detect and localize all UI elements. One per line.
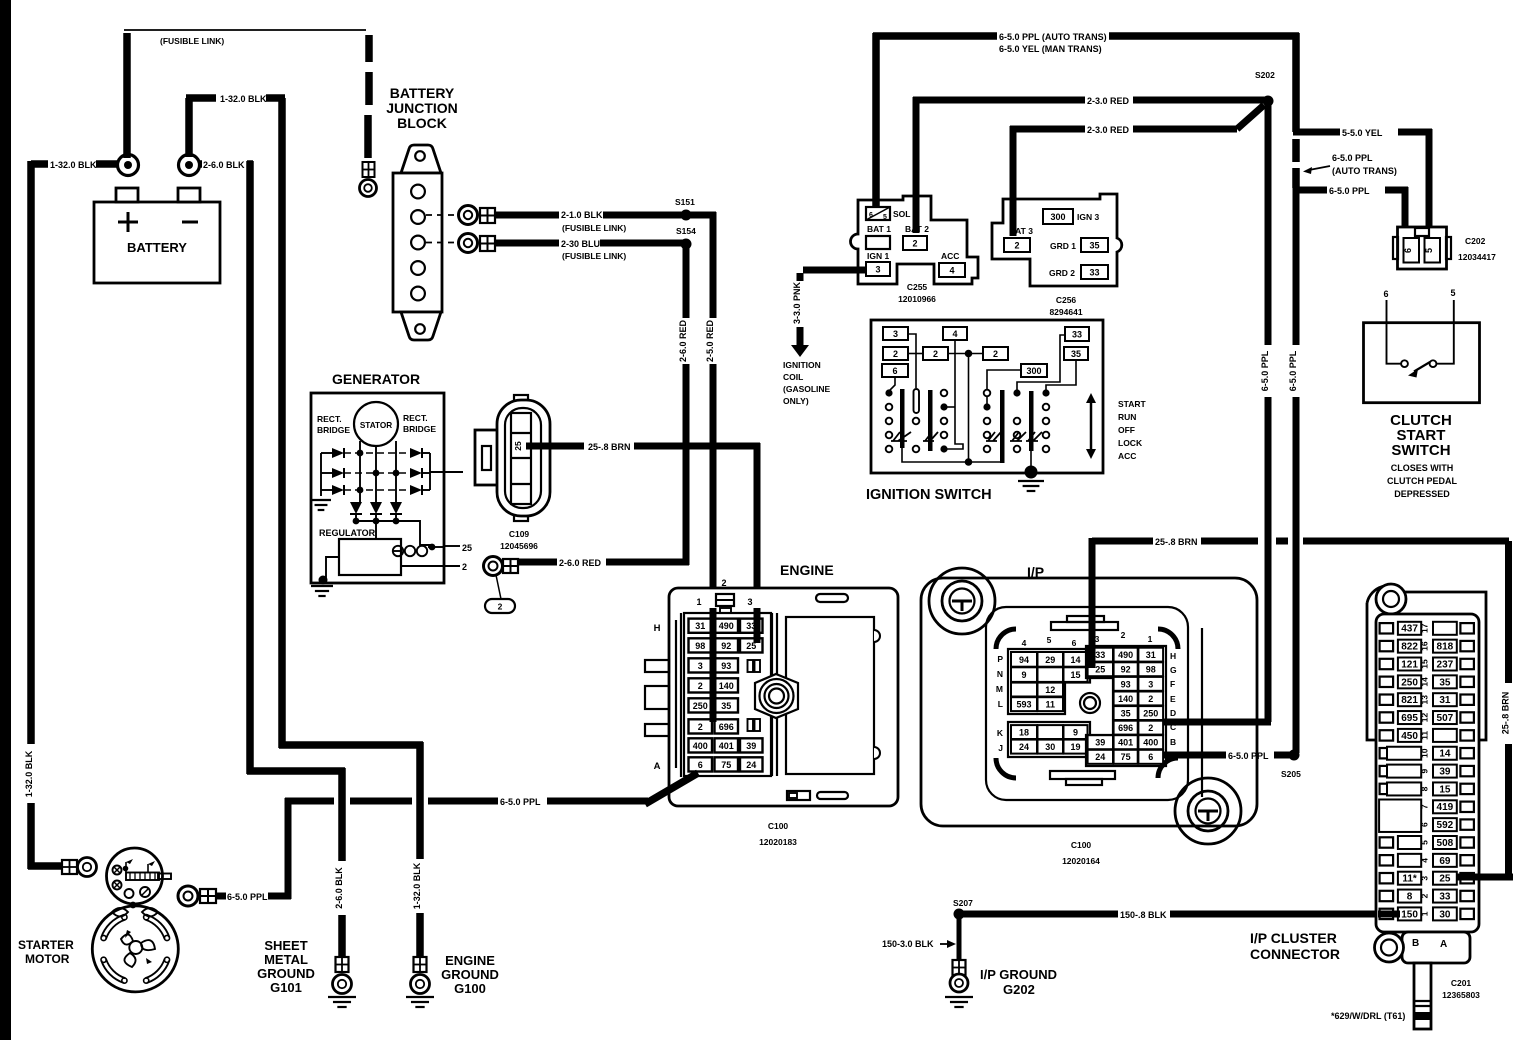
splice S205 (1281, 750, 1301, 780)
ignition switch ground (1018, 451, 1044, 491)
svg-text:1-32.0 BLK: 1-32.0 BLK (24, 750, 34, 797)
svg-text:24: 24 (1095, 752, 1105, 762)
svg-text:B: B (1170, 737, 1176, 747)
wire 1-32.0 BLK battery negative to engine ground G100 (186, 94, 423, 958)
svg-text:CLUTCH PEDAL: CLUTCH PEDAL (1387, 476, 1457, 486)
svg-text:14: 14 (1419, 677, 1429, 687)
svg-text:ACC: ACC (1118, 451, 1136, 461)
svg-text:C201: C201 (1451, 978, 1472, 988)
svg-text:1: 1 (696, 597, 701, 607)
generator output 25 (444, 543, 472, 553)
svg-text:10: 10 (1419, 748, 1429, 758)
svg-text:92: 92 (1121, 665, 1131, 675)
svg-text:250: 250 (1143, 708, 1158, 718)
svg-text:1-32.0 BLK: 1-32.0 BLK (412, 862, 422, 909)
svg-text:33: 33 (1072, 329, 1082, 339)
wire 6-5.0 PPL S205 to I/P pin 6 (1164, 751, 1291, 761)
svg-text:35: 35 (1071, 349, 1081, 359)
svg-text:12045696: 12045696 (500, 541, 538, 551)
svg-text:25: 25 (462, 543, 472, 553)
ground symbol G101 (328, 996, 356, 998)
svg-text:6: 6 (1072, 638, 1077, 648)
svg-text:GENERATOR: GENERATOR (332, 371, 420, 387)
svg-text:822: 822 (1401, 642, 1418, 653)
svg-text:2-1.0 BLK: 2-1.0 BLK (561, 210, 603, 220)
svg-text:419: 419 (1437, 802, 1454, 813)
svg-text:BLOCK: BLOCK (397, 115, 447, 131)
svg-text:25: 25 (1095, 665, 1105, 675)
svg-text:3: 3 (1148, 679, 1153, 689)
svg-text:1: 1 (1419, 911, 1429, 916)
svg-text:E: E (1170, 694, 1176, 704)
svg-text:2: 2 (498, 602, 503, 612)
svg-text:IGN 3: IGN 3 (1077, 212, 1099, 222)
generator stator (354, 402, 398, 446)
splice S202 (1255, 70, 1275, 107)
svg-text:5-5.0 YEL: 5-5.0 YEL (1342, 128, 1383, 138)
svg-text:6: 6 (1148, 752, 1153, 762)
svg-text:D: D (1170, 708, 1176, 718)
svg-text:14: 14 (1439, 749, 1451, 760)
svg-text:6-5.0 PPL: 6-5.0 PPL (227, 892, 268, 902)
ring terminal I/P ground G202 (950, 960, 968, 992)
svg-text:C255: C255 (907, 282, 928, 292)
svg-text:COIL: COIL (783, 372, 803, 382)
wire 25-.8 BRN into C201 pin 25 (overlay) (1457, 874, 1513, 881)
label engine ground G100 (441, 953, 499, 996)
svg-text:12020164: 12020164 (1062, 856, 1100, 866)
svg-text:150-3.0 BLK: 150-3.0 BLK (882, 939, 934, 949)
generator regulator (319, 528, 401, 575)
svg-text:19: 19 (1070, 742, 1080, 752)
svg-text:6: 6 (869, 212, 873, 219)
svg-text:RUN: RUN (1118, 412, 1136, 422)
svg-text:GRD 1: GRD 1 (1050, 241, 1076, 251)
svg-text:5: 5 (1047, 635, 1052, 645)
svg-text:J: J (998, 743, 1003, 753)
svg-text:490: 490 (1118, 650, 1133, 660)
svg-text:RECT.: RECT. (403, 413, 428, 423)
svg-text:593: 593 (1016, 700, 1031, 710)
wire: battery - to sheet metal ground G101 (2-6.0 BLK) (200, 160, 345, 958)
svg-text:2: 2 (462, 562, 467, 572)
ring terminal junction block feed 1 (459, 206, 496, 225)
svg-text:N: N (997, 669, 1003, 679)
svg-text:4: 4 (949, 265, 954, 275)
generator regulator ground (311, 557, 339, 596)
svg-text:33: 33 (1439, 891, 1451, 902)
svg-text:821: 821 (1401, 695, 1418, 706)
svg-text:2: 2 (698, 681, 703, 691)
wire 6-5.0 PPL S202 to I/P pin C2 (1164, 104, 1271, 722)
svg-text:9: 9 (1021, 670, 1026, 680)
label starter motor (18, 938, 74, 966)
C201 bottom area (1331, 932, 1480, 1029)
C201 pin grid (1379, 622, 1474, 921)
svg-text:S207: S207 (953, 898, 973, 908)
ring terminal fusible link at junction block (360, 162, 377, 197)
svg-text:2-6.0 BLK: 2-6.0 BLK (334, 867, 344, 909)
svg-text:SOL: SOL (893, 209, 910, 219)
svg-text:5: 5 (1424, 248, 1434, 253)
svg-text:G101: G101 (270, 980, 302, 995)
svg-text:2-5.0 RED: 2-5.0 RED (705, 319, 715, 362)
svg-text:490: 490 (719, 621, 734, 631)
svg-text:2: 2 (993, 349, 998, 359)
svg-text:C100: C100 (1071, 840, 1092, 850)
svg-text:C100: C100 (768, 821, 789, 831)
svg-text:237: 237 (1437, 659, 1454, 670)
svg-text:29: 29 (1045, 655, 1055, 665)
svg-text:92: 92 (721, 641, 731, 651)
svg-text:6: 6 (698, 760, 703, 770)
svg-text:(FUSIBLE LINK): (FUSIBLE LINK) (562, 251, 626, 261)
svg-text:2: 2 (1014, 240, 1019, 250)
svg-text:24: 24 (1019, 742, 1029, 752)
svg-text:2-3.0 RED: 2-3.0 RED (1087, 96, 1130, 106)
svg-text:(FUSIBLE LINK): (FUSIBLE LINK) (160, 36, 224, 46)
svg-text:150-.8 BLK: 150-.8 BLK (1120, 910, 1167, 920)
label I/P ground G202 (980, 967, 1057, 997)
svg-text:35: 35 (1089, 240, 1099, 250)
svg-text:696: 696 (719, 722, 734, 732)
ground symbol G100 (406, 996, 434, 998)
svg-text:CLOSES WITH: CLOSES WITH (1391, 463, 1454, 473)
svg-text:33: 33 (1095, 650, 1105, 660)
svg-text:3: 3 (875, 264, 880, 274)
splice S154 (681, 239, 692, 250)
svg-text:818: 818 (1437, 642, 1454, 653)
svg-text:B: B (1412, 938, 1419, 949)
svg-text:75: 75 (1121, 752, 1131, 762)
svg-text:2: 2 (1121, 630, 1126, 640)
svg-text:93: 93 (721, 661, 731, 671)
svg-text:REGULATOR: REGULATOR (319, 528, 376, 538)
svg-text:F: F (1170, 679, 1175, 689)
engine connector pin grid (689, 619, 763, 772)
svg-text:12034417: 12034417 (1458, 252, 1496, 262)
svg-text:5: 5 (1450, 288, 1455, 298)
engine bulkhead connector C100 12020183 (645, 562, 898, 806)
wire 2-5.0 RED into engine pin 2 (overlay) (710, 608, 717, 722)
svg-text:5: 5 (883, 214, 887, 221)
generator field coil (393, 544, 444, 557)
ignition switch (866, 320, 1103, 503)
ring terminal starter solenoid S (6-5.0 PPL) (178, 886, 216, 906)
ring terminal sheet metal ground G101 (333, 957, 352, 994)
svg-text:25-.8 BRN: 25-.8 BRN (1501, 692, 1511, 735)
connector C255 12010966 (851, 196, 978, 304)
svg-text:2: 2 (1148, 723, 1153, 733)
starter motor solenoid (107, 848, 172, 904)
svg-text:6: 6 (1419, 822, 1429, 827)
svg-text:15: 15 (1419, 659, 1429, 669)
svg-text:13: 13 (1419, 695, 1429, 705)
svg-text:3: 3 (1419, 876, 1429, 881)
svg-text:140: 140 (719, 681, 734, 691)
wire 3-3.0 PNK to ignition coil (783, 270, 866, 406)
I/P cluster connector C201 12365803 (1367, 584, 1486, 932)
I/P connector left pin grid (996, 635, 1090, 757)
svg-text:2-3.0 RED: 2-3.0 RED (1087, 125, 1130, 135)
svg-text:12010966: 12010966 (898, 294, 936, 304)
svg-text:S151: S151 (675, 197, 695, 207)
svg-text:98: 98 (695, 641, 705, 651)
generator left rectifier bridge diodes (321, 448, 344, 496)
svg-text:17: 17 (1419, 623, 1429, 633)
svg-text:30: 30 (1439, 909, 1451, 920)
svg-text:G: G (1170, 665, 1177, 675)
wire 150-.8 BLK into C201 pin 150 (overlay) (1378, 911, 1400, 918)
label sheet metal ground G101 (257, 938, 315, 995)
svg-text:33: 33 (1089, 267, 1099, 277)
label I/P cluster connector (1250, 930, 1340, 962)
svg-text:12020183: 12020183 (759, 837, 797, 847)
wire 2-5.0 RED S151 to engine connector (686, 212, 716, 723)
svg-text:30: 30 (1045, 742, 1055, 752)
wire 25-.8 BRN to I/P pin 25 and cluster connector (1092, 537, 1512, 877)
svg-text:2-6.0 RED: 2-6.0 RED (559, 558, 602, 568)
battery negative stud terminal (179, 155, 200, 176)
svg-text:24: 24 (746, 760, 756, 770)
svg-text:IGNITION SWITCH: IGNITION SWITCH (866, 487, 992, 503)
svg-text:9: 9 (1073, 727, 1078, 737)
battery (94, 188, 220, 283)
svg-text:6-5.0 PPL: 6-5.0 PPL (1329, 186, 1370, 196)
ignition switch contacts (885, 389, 1049, 463)
svg-text:6-5.0 PPL: 6-5.0 PPL (1332, 153, 1373, 163)
wire 2-3.0 RED C256 BAT3 to S202 (1010, 105, 1264, 236)
svg-text:6-5.0 PPL: 6-5.0 PPL (500, 797, 541, 807)
svg-text:12: 12 (1045, 685, 1055, 695)
svg-text:6-5.0 PPL: 6-5.0 PPL (1260, 350, 1270, 391)
svg-text:3: 3 (747, 597, 752, 607)
svg-text:39: 39 (1439, 767, 1451, 778)
svg-text:S154: S154 (676, 226, 696, 236)
svg-text:DEPRESSED: DEPRESSED (1394, 489, 1450, 499)
svg-text:25: 25 (1439, 874, 1451, 885)
svg-text:94: 94 (1019, 655, 1029, 665)
svg-text:1-32.0 BLK: 1-32.0 BLK (50, 160, 97, 170)
svg-text:75: 75 (721, 760, 731, 770)
battery positive stud terminal (118, 155, 139, 176)
svg-text:GROUND: GROUND (441, 967, 499, 982)
ignition switch position arrow (1086, 393, 1147, 461)
svg-text:8: 8 (1407, 891, 1413, 902)
svg-text:12: 12 (1419, 713, 1429, 723)
I/P connector right pin grid (1086, 630, 1177, 766)
wire fusible link battery positive to junction block (124, 30, 369, 158)
svg-text:250: 250 (1401, 677, 1418, 688)
svg-text:121: 121 (1401, 659, 1418, 670)
svg-text:L: L (998, 699, 1003, 709)
svg-text:300: 300 (1026, 366, 1041, 376)
svg-text:M: M (996, 684, 1003, 694)
svg-text:1-32.0 BLK: 1-32.0 BLK (220, 94, 267, 104)
svg-text:2: 2 (721, 578, 726, 588)
svg-text:STATOR: STATOR (360, 421, 392, 430)
wire 6-5.0 PPL clutch switch to S205 (1288, 186, 1298, 753)
svg-text:6: 6 (1403, 248, 1413, 253)
svg-text:7: 7 (1419, 804, 1429, 809)
wire 6-5.0 PPL/YEL ignition SOL to clutch switch (873, 32, 1299, 208)
svg-text:6: 6 (1383, 289, 1388, 299)
svg-text:9: 9 (1419, 768, 1429, 773)
svg-text:BAT 1: BAT 1 (867, 224, 891, 234)
connector C109 12045696 (475, 395, 550, 551)
svg-text:G100: G100 (454, 981, 486, 996)
svg-text:8294641: 8294641 (1049, 307, 1082, 317)
svg-text:2: 2 (1148, 694, 1153, 704)
svg-text:C202: C202 (1465, 236, 1486, 246)
svg-text:4: 4 (1419, 858, 1429, 863)
svg-text:11: 11 (1045, 700, 1055, 710)
svg-text:12365803: 12365803 (1442, 990, 1480, 1000)
svg-text:*629/W/DRL (T61): *629/W/DRL (T61) (1331, 1011, 1405, 1021)
svg-text:2-30 BLU: 2-30 BLU (561, 239, 600, 249)
svg-text:400: 400 (693, 741, 708, 751)
wire 2-6.0 RED S154 to generator output 2 (518, 241, 689, 568)
svg-text:6-5.0 PPL: 6-5.0 PPL (1288, 350, 1298, 391)
svg-text:H: H (1170, 651, 1176, 661)
svg-text:18: 18 (1019, 727, 1029, 737)
svg-text:GRD 2: GRD 2 (1049, 268, 1075, 278)
svg-text:15: 15 (1070, 670, 1080, 680)
ground symbol G202 (945, 996, 973, 998)
wire 2-3.0 RED C255 BAT2 to S202 (913, 96, 1266, 233)
I/P bulkhead connector C100 12020164 (921, 564, 1257, 866)
starter motor body (92, 902, 178, 992)
ring terminal generator pin 2 (484, 557, 519, 614)
svg-text:437: 437 (1401, 624, 1418, 635)
svg-text:35: 35 (721, 701, 731, 711)
svg-text:I/P CLUSTER: I/P CLUSTER (1250, 930, 1337, 946)
svg-text:6-5.0 PPL: 6-5.0 PPL (1228, 751, 1269, 761)
svg-text:START: START (1118, 399, 1147, 409)
clutch start switch (1364, 288, 1480, 499)
splice S207 (953, 898, 973, 920)
wire 150-3.0 BLK to I/P ground G202 (882, 917, 959, 960)
wire 2-1.0 BLK fusible link to S151 (495, 197, 695, 233)
svg-text:(AUTO TRANS): (AUTO TRANS) (1332, 166, 1397, 176)
svg-text:25-.8 BRN: 25-.8 BRN (1155, 537, 1198, 547)
generator stator phase wires (344, 441, 410, 502)
svg-text:401: 401 (719, 741, 734, 751)
svg-text:3-3.0 PNK: 3-3.0 PNK (792, 281, 802, 324)
svg-text:31: 31 (1146, 650, 1156, 660)
svg-text:3: 3 (698, 661, 703, 671)
svg-text:SHEET: SHEET (264, 938, 307, 953)
svg-text:696: 696 (1118, 723, 1133, 733)
svg-text:3: 3 (893, 329, 898, 339)
svg-text:S202: S202 (1255, 70, 1275, 80)
svg-text:S205: S205 (1281, 769, 1301, 779)
svg-text:25: 25 (513, 441, 523, 451)
svg-text:69: 69 (1439, 856, 1451, 867)
battery junction block (386, 85, 458, 340)
svg-text:BATTERY: BATTERY (390, 85, 455, 101)
svg-text:MOTOR: MOTOR (25, 952, 70, 966)
svg-text:14: 14 (1070, 655, 1080, 665)
wire 2-30 BLU fusible link to S154 (495, 226, 696, 261)
svg-text:2: 2 (698, 722, 703, 732)
svg-text:250: 250 (693, 701, 708, 711)
svg-text:400: 400 (1143, 738, 1158, 748)
svg-text:RECT.: RECT. (317, 414, 342, 424)
wire 1-32.0 BLK battery positive to starter motor (24, 160, 117, 869)
svg-text:(FUSIBLE LINK): (FUSIBLE LINK) (562, 223, 626, 233)
svg-text:35: 35 (1121, 708, 1131, 718)
svg-text:ACC: ACC (941, 251, 959, 261)
svg-text:(GASOLINE: (GASOLINE (783, 384, 831, 394)
svg-text:METAL: METAL (264, 952, 308, 967)
svg-text:SWITCH: SWITCH (1391, 442, 1450, 459)
svg-text:25-.8 BRN: 25-.8 BRN (588, 442, 631, 452)
svg-text:C256: C256 (1056, 295, 1077, 305)
svg-text:300: 300 (1050, 212, 1065, 222)
svg-text:35: 35 (1439, 677, 1451, 688)
svg-text:98: 98 (1146, 665, 1156, 675)
svg-text:11*: 11* (1402, 874, 1417, 885)
wire 25-.8 BRN C109 to engine connector pin 25 (526, 442, 760, 641)
wire 5-5.0 YEL to C202 pin 5 (1293, 128, 1432, 241)
generator trio diodes (350, 502, 432, 545)
svg-text:15: 15 (1439, 784, 1451, 795)
svg-text:6: 6 (892, 366, 897, 376)
ring terminal engine ground G100 (411, 957, 430, 994)
svg-text:LOCK: LOCK (1118, 438, 1143, 448)
svg-text:2: 2 (933, 349, 938, 359)
svg-text:ONLY): ONLY) (783, 396, 809, 406)
svg-text:P: P (997, 654, 1003, 664)
svg-text:A: A (1440, 939, 1447, 950)
svg-text:IGNITION: IGNITION (783, 360, 821, 370)
svg-text:BRIDGE: BRIDGE (317, 425, 350, 435)
svg-text:6-5.0 PPL (AUTO TRANS): 6-5.0 PPL (AUTO TRANS) (999, 32, 1107, 42)
svg-text:140: 140 (1118, 694, 1133, 704)
ring terminal junction block feed 2 (459, 234, 496, 253)
svg-text:6-5.0 YEL (MAN TRANS): 6-5.0 YEL (MAN TRANS) (999, 44, 1102, 54)
svg-text:695: 695 (1401, 713, 1418, 724)
svg-text:G202: G202 (1003, 982, 1035, 997)
svg-text:16: 16 (1419, 641, 1429, 651)
svg-text:K: K (997, 728, 1004, 738)
svg-text:2-6.0 RED: 2-6.0 RED (678, 319, 688, 362)
ignition switch terminal boxes (882, 327, 1089, 377)
wire 150-.8 BLK S207 to I/P cluster connector (959, 910, 1397, 920)
svg-text:4: 4 (1022, 638, 1027, 648)
generator (311, 371, 444, 583)
svg-text:I/P GROUND: I/P GROUND (980, 967, 1057, 982)
page edge scan bar (0, 0, 11, 1040)
svg-text:BRIDGE: BRIDGE (403, 424, 436, 434)
svg-text:A: A (654, 761, 661, 772)
svg-text:2: 2 (1419, 893, 1429, 898)
svg-text:1: 1 (1148, 634, 1153, 644)
svg-text:ENGINE: ENGINE (445, 953, 495, 968)
svg-text:507: 507 (1437, 713, 1454, 724)
svg-text:8: 8 (1419, 786, 1429, 791)
svg-text:31: 31 (695, 621, 705, 631)
splice S151 (681, 210, 692, 221)
engine connector shroud and bolt (748, 617, 881, 847)
svg-text:31: 31 (1439, 695, 1451, 706)
connector C256 8294641 (992, 194, 1122, 317)
svg-text:508: 508 (1437, 838, 1454, 849)
svg-text:OFF: OFF (1118, 425, 1135, 435)
svg-text:39: 39 (746, 741, 756, 751)
svg-text:IGN 1: IGN 1 (867, 251, 889, 261)
